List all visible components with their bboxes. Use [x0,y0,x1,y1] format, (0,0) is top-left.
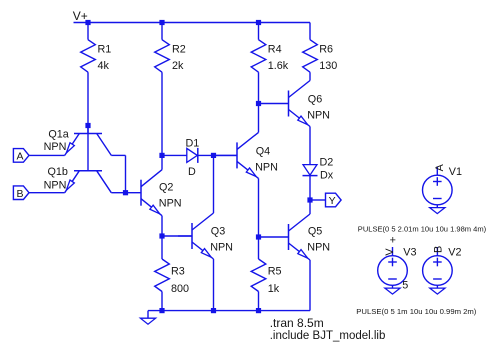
svg-text:V1: V1 [449,166,462,178]
svg-text:R2: R2 [172,44,186,56]
svg-text:R4: R4 [268,44,282,56]
svg-text:NPN: NPN [44,141,67,153]
svg-text:NPN: NPN [255,161,278,173]
svg-text:NPN: NPN [159,197,182,209]
svg-text:R5: R5 [268,265,282,277]
svg-text:D1: D1 [186,137,200,149]
svg-text:A: A [434,163,446,171]
svg-text:V3: V3 [403,246,416,258]
svg-text:D: D [188,166,196,178]
svg-text:800: 800 [171,283,189,295]
svg-text:1k: 1k [268,283,280,295]
svg-text:Dx: Dx [320,170,334,182]
svg-text:NPN: NPN [210,241,233,253]
svg-text:1.6k: 1.6k [268,60,289,72]
svg-text:R6: R6 [319,44,333,56]
svg-text:2k: 2k [172,60,184,72]
svg-text:PULSE(0 5 1m 10u 10u 0.99m 2m): PULSE(0 5 1m 10u 10u 0.99m 2m) [356,307,477,316]
svg-text:A: A [16,151,23,163]
svg-text:5: 5 [402,279,408,291]
svg-text:Q4: Q4 [256,146,270,158]
svg-text:R3: R3 [171,265,185,277]
svg-text:130: 130 [319,60,337,72]
svg-text:Q5: Q5 [308,226,322,238]
svg-text:D2: D2 [320,157,334,169]
svg-text:B: B [16,188,23,200]
svg-text:NPN: NPN [307,241,330,253]
svg-text:NPN: NPN [44,180,67,192]
svg-text:Y: Y [329,195,336,207]
svg-text:R1: R1 [98,44,112,56]
svg-text:4k: 4k [98,60,110,72]
svg-text:Q3: Q3 [211,226,225,238]
svg-text:NPN: NPN [307,109,330,121]
svg-text:PULSE(0 5 2.01m 10u 10u 1.98m: PULSE(0 5 2.01m 10u 10u 1.98m 4m) [358,224,487,233]
svg-text:Q1b: Q1b [48,166,68,178]
svg-text:V: V [384,248,396,256]
svg-text:Q6: Q6 [308,94,322,106]
svg-text:B: B [432,246,444,253]
svg-text:+: + [390,234,396,246]
svg-text:.tran 8.5m: .tran 8.5m [270,316,324,330]
svg-text:.include BJT_model.lib: .include BJT_model.lib [270,330,386,342]
svg-text:Q2: Q2 [159,182,173,194]
svg-text:Q1a: Q1a [48,129,68,141]
svg-text:V2: V2 [448,246,461,258]
